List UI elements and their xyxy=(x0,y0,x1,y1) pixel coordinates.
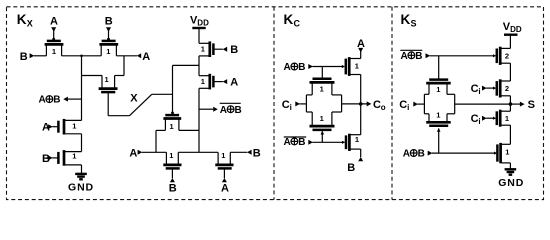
svg-text:i: i xyxy=(407,103,409,112)
bridge bottom transistor (size 1) xyxy=(310,112,335,142)
svg-text:1: 1 xyxy=(505,114,509,123)
svg-text:B: B xyxy=(298,137,305,148)
transistor S4 (nMOS, gate=A⊕B, size 1) xyxy=(494,143,510,163)
svg-text:o: o xyxy=(381,103,386,112)
svg-text:C: C xyxy=(399,99,407,111)
svg-text:S: S xyxy=(411,19,417,29)
transistor M4 (nMOS, gate=A, size 1) xyxy=(58,119,81,135)
svg-text:A: A xyxy=(230,77,238,89)
svg-text:i: i xyxy=(478,117,480,126)
svg-text:B: B xyxy=(253,147,261,159)
svg-text:1: 1 xyxy=(170,122,174,131)
svg-text:B: B xyxy=(169,182,177,194)
transistor C2 (nMOS, gate=A̅⊕B̅, size 1) xyxy=(342,134,361,151)
wire rail S2 to S node xyxy=(509,96,511,111)
svg-text:A: A xyxy=(39,95,46,106)
outer dashed frame xyxy=(7,7,544,200)
transistor S3 (nMOS, gate=Ci, size 1) xyxy=(493,110,510,127)
svg-text:i: i xyxy=(290,103,292,112)
svg-text:S: S xyxy=(528,99,535,111)
svg-text:DD: DD xyxy=(197,18,209,27)
svg-text:B: B xyxy=(418,149,425,160)
svg-text:2: 2 xyxy=(505,51,509,60)
svg-text:X: X xyxy=(130,93,138,105)
svg-text:1: 1 xyxy=(436,110,440,119)
input Ci (upper right, K_S) xyxy=(471,83,494,96)
input Ci (left, K_S) xyxy=(399,99,424,112)
node B (bottom, K_C) xyxy=(347,149,363,174)
svg-text:A: A xyxy=(142,51,150,63)
svg-text:B: B xyxy=(53,95,60,106)
svg-text:A: A xyxy=(220,105,227,116)
input A⊕B (K_C) xyxy=(284,62,343,73)
svg-text:A: A xyxy=(401,51,408,62)
svg-text:B: B xyxy=(105,15,113,27)
svg-text:A: A xyxy=(284,137,291,148)
pass-gate bridge (K_C): top gate stub wire xyxy=(321,67,323,79)
input B (left) xyxy=(20,51,35,63)
svg-text:1: 1 xyxy=(355,62,359,71)
svg-text:B: B xyxy=(298,62,305,73)
wire M1 to M2 (internal node) xyxy=(62,55,102,57)
wire M2 to input A (right) xyxy=(116,55,137,57)
svg-text:1: 1 xyxy=(106,47,110,56)
svg-text:1: 1 xyxy=(436,85,440,94)
input A (gate of M4) xyxy=(42,122,58,134)
dashed divider KC|KS xyxy=(391,7,393,200)
transistor M6 (gate=B right, size 1) xyxy=(199,41,238,57)
input A (bottom row left) xyxy=(129,147,142,159)
transistor M1 (pass nMOS, gate=A, size 1) xyxy=(45,41,64,56)
transistor S2 (nMOS, gate=Ci, size 2) xyxy=(493,79,510,97)
input A̅⊕B̅ (K_S) xyxy=(400,50,493,62)
svg-text:C: C xyxy=(282,99,290,111)
node A (top, K_C) xyxy=(357,38,365,59)
bridge bottom transistor (K_S, size 1) xyxy=(426,110,451,153)
svg-text:GND: GND xyxy=(68,181,94,193)
svg-text:A: A xyxy=(50,15,58,27)
wire rail down to bottom row xyxy=(198,88,200,152)
wire rail M6-M7 xyxy=(198,56,200,76)
svg-text:B: B xyxy=(347,162,355,174)
transistor M5 (nMOS, gate=B, size 1) xyxy=(58,150,81,166)
ground (K_S) xyxy=(498,163,524,189)
svg-text:1: 1 xyxy=(201,45,205,54)
svg-text:C: C xyxy=(471,83,479,95)
svg-text:1: 1 xyxy=(221,151,225,160)
wire rail S1-S2 xyxy=(509,63,511,81)
svg-text:DD: DD xyxy=(510,25,522,34)
transistor M2 (pass nMOS, gate=B, size 1) xyxy=(99,41,118,56)
output S xyxy=(509,99,535,111)
svg-text:1: 1 xyxy=(320,85,324,94)
transistor M10 (inverted nMOS, gate=A bottom, size 1) xyxy=(215,151,233,195)
node X branch wire xyxy=(173,64,200,66)
node X vertical wire to M8 gate xyxy=(172,65,174,112)
ground (K_X) xyxy=(68,165,94,194)
svg-text:1: 1 xyxy=(72,122,76,131)
input B (bottom right) xyxy=(247,147,261,159)
transistor M7 (gate=A right, size 1) xyxy=(199,74,238,90)
wire M9 to M10 across rail xyxy=(178,151,218,153)
wire M10 to input B (right) xyxy=(230,151,247,153)
svg-text:A: A xyxy=(403,149,410,160)
svg-text:2: 2 xyxy=(505,84,509,93)
bridge (K_S): top gate stub wire xyxy=(438,56,440,80)
VDD terminal (K_X) xyxy=(190,14,209,43)
VDD terminal (K_S) xyxy=(503,21,522,48)
wire M4 to M5 xyxy=(81,134,83,152)
svg-text:1: 1 xyxy=(505,147,509,156)
bridge top transistor (K_S, size 1) xyxy=(426,80,451,95)
wire drop to M3 right terminal xyxy=(123,56,125,76)
wire M8 branch down to A wire xyxy=(155,130,157,152)
output A̅⊕B̅ (XNOR out) xyxy=(199,103,242,116)
wire A to M9 xyxy=(142,151,167,153)
node X wire (zigzag to right half) xyxy=(108,93,172,116)
input A⊕B (K_S) xyxy=(403,149,495,160)
svg-text:A: A xyxy=(129,147,137,159)
svg-text:A: A xyxy=(221,182,229,194)
output Co wire + junction xyxy=(342,99,386,112)
wire node vertical (to A⊕B and M4) xyxy=(81,56,83,121)
bridge frame wires (K_S) xyxy=(424,94,454,114)
svg-text:i: i xyxy=(478,87,480,96)
node A (top input, gate of M1) xyxy=(50,15,58,40)
svg-text:K: K xyxy=(17,12,27,27)
transistor M8 (gate=X top, size 1) xyxy=(163,112,181,131)
svg-text:C: C xyxy=(373,99,381,111)
transistor M3 (inverted pass nMOS, gate=X, size 1) xyxy=(99,75,118,116)
node B (top input, gate of M2) xyxy=(105,15,113,40)
wire rail S3-S4 xyxy=(509,125,511,144)
svg-text:1: 1 xyxy=(201,77,205,86)
svg-text:GND: GND xyxy=(498,177,524,189)
wire B to M1 xyxy=(34,55,47,57)
output A⊕B (left) xyxy=(39,95,82,106)
bridge top transistor (size 1) xyxy=(310,79,335,95)
input B (gate of M5) xyxy=(42,153,58,165)
svg-text:C: C xyxy=(471,113,479,125)
svg-text:1: 1 xyxy=(52,47,56,56)
svg-text:1: 1 xyxy=(105,75,109,84)
wire M8 left branch xyxy=(156,129,165,131)
svg-text:1: 1 xyxy=(355,135,359,144)
svg-text:A: A xyxy=(284,62,291,73)
svg-text:B: B xyxy=(235,105,242,116)
bridge frame wires (K_C) xyxy=(306,95,341,112)
svg-text:B: B xyxy=(415,51,422,62)
svg-text:1: 1 xyxy=(320,114,324,123)
svg-text:X: X xyxy=(27,19,33,29)
dashed divider KX|KC xyxy=(273,7,275,200)
svg-text:B: B xyxy=(20,51,28,63)
wire M3 top-left xyxy=(82,75,103,77)
svg-text:C: C xyxy=(294,19,301,29)
wire Co node rail C1-C2 xyxy=(360,75,362,135)
input Ci (lower right, K_S) xyxy=(471,113,494,126)
wire bridge to S node xyxy=(455,103,511,105)
wire M8 right branch to rail xyxy=(179,129,199,131)
svg-text:1: 1 xyxy=(169,151,173,160)
wire M3 top-right xyxy=(115,75,124,77)
input A̅⊕B̅ (K_C) xyxy=(284,137,345,148)
svg-text:K: K xyxy=(401,12,411,27)
transistor M9 (inverted nMOS, gate=B bottom, size 1) xyxy=(163,151,181,195)
transistor C1 (nMOS, gate=A⊕B, size 1) xyxy=(342,57,361,76)
input Ci (K_C) xyxy=(282,99,307,112)
junction xyxy=(80,55,83,58)
transistor S1 (nMOS, gate=A̅⊕B̅, size 2) xyxy=(493,47,510,65)
svg-text:K: K xyxy=(284,12,294,27)
svg-text:B: B xyxy=(230,44,238,56)
svg-text:1: 1 xyxy=(72,152,76,161)
input A (right of top row) xyxy=(137,51,150,63)
